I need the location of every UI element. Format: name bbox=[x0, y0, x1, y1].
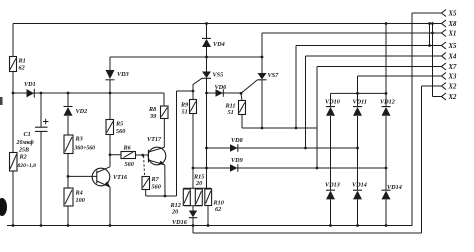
wire dashed to R7 bbox=[144, 156, 145, 177]
diode VD8 bbox=[230, 137, 243, 152]
svg-text:VD14: VD14 bbox=[352, 182, 367, 189]
svg-text:Х1: Х1 bbox=[448, 31, 457, 38]
node VD9 right end phase3 bbox=[385, 167, 388, 170]
transistor VT16 bbox=[68, 167, 128, 226]
node VD6 tap bbox=[205, 92, 208, 95]
svg-text:R7: R7 bbox=[151, 176, 160, 183]
wire x317 vertical bbox=[316, 67, 318, 169]
svg-text:820÷1,8: 820÷1,8 bbox=[18, 163, 37, 169]
svg-text:39: 39 bbox=[149, 113, 156, 120]
wire cathode bus y128 bbox=[242, 127, 317, 129]
node VD15 bottom rail bbox=[385, 224, 388, 227]
divider top bar bbox=[183, 187, 211, 189]
node R1/VD1/R2 junction bbox=[12, 92, 15, 95]
diode VD14 bbox=[352, 182, 367, 200]
svg-text:R6: R6 bbox=[123, 145, 132, 152]
svg-text:VD16: VD16 bbox=[172, 219, 188, 226]
terminal X2 t8 bbox=[442, 83, 458, 91]
transistor VT17 bbox=[147, 136, 166, 165]
diode VD1 bbox=[24, 81, 36, 98]
terminal X4 t5 bbox=[442, 53, 458, 61]
resistor R10 62 bbox=[205, 189, 224, 226]
node VD6/R11/gate junction bbox=[240, 92, 243, 95]
svg-text:Х2: Х2 bbox=[448, 94, 458, 101]
resistor R3 360-560 bbox=[64, 135, 95, 154]
diode VD12 bbox=[380, 99, 395, 116]
node x317 on VD9 line bbox=[316, 167, 319, 170]
terminal X2 t9 bbox=[442, 93, 458, 101]
wire X2 line y86 bbox=[422, 85, 442, 87]
svg-text:360÷560: 360÷560 bbox=[74, 146, 96, 152]
svg-text:25В: 25В bbox=[18, 148, 29, 154]
svg-text:VD8: VD8 bbox=[231, 137, 243, 144]
wire VT17 collector to R8 bbox=[163, 119, 165, 148]
svg-text:VD4: VD4 bbox=[213, 41, 225, 48]
svg-text:Х2: Х2 bbox=[448, 84, 458, 91]
diode VD6 bbox=[207, 84, 242, 97]
svg-text:R2: R2 bbox=[19, 154, 27, 161]
diode VD10 bbox=[325, 99, 340, 116]
diode VD11 bbox=[353, 99, 367, 116]
node VD4 rail2 bbox=[205, 56, 208, 59]
wire main rail y93 bbox=[13, 92, 164, 94]
wire R2 branch bbox=[12, 93, 14, 226]
node R6 tap on collector line bbox=[109, 153, 112, 156]
svg-text:VD6: VD6 bbox=[215, 84, 228, 91]
diode VD15 bbox=[382, 184, 402, 199]
wire x432 vertical bbox=[432, 24, 434, 97]
resistor R2 820/1,8k bbox=[10, 153, 37, 172]
wire VS5 column down to divider bbox=[206, 93, 208, 188]
diode VD13 bbox=[325, 182, 340, 200]
svg-text:R3: R3 bbox=[75, 136, 83, 143]
node phase3 top rail bbox=[385, 22, 388, 25]
diode VD3 bbox=[106, 70, 129, 80]
svg-text:560: 560 bbox=[125, 161, 134, 168]
wire phase2 column bbox=[357, 76, 359, 226]
svg-text:20: 20 bbox=[171, 209, 178, 216]
thyristor VS5 bbox=[193, 57, 223, 93]
svg-text:VD13: VD13 bbox=[325, 182, 340, 189]
resistor R7 560 bbox=[142, 176, 161, 196]
resistor R9 51 bbox=[180, 91, 197, 188]
svg-text:VD11: VD11 bbox=[353, 99, 367, 106]
wire top rail A bbox=[13, 23, 442, 25]
terminal X5 t4 bbox=[442, 42, 458, 50]
svg-text:Х8: Х8 bbox=[448, 21, 458, 28]
node VD16 on bottom rail bbox=[192, 224, 195, 227]
node VS7 rail2 bbox=[261, 56, 264, 59]
wire left vertical from rail to R1 and VD1 node bbox=[12, 24, 14, 94]
diode VD16 bbox=[172, 211, 197, 234]
terminal X8 t2 bbox=[442, 20, 458, 28]
wire rail2 y57 bbox=[110, 56, 262, 58]
wire bottom rail bbox=[7, 225, 412, 228]
wire VT17 emitter down bbox=[164, 165, 166, 196]
svg-text:VD1: VD1 bbox=[24, 81, 36, 88]
svg-text:R5: R5 bbox=[115, 121, 123, 128]
svg-text:VD12: VD12 bbox=[380, 99, 395, 106]
node VD4 top rail bbox=[205, 22, 208, 25]
terminal X5 t1 bbox=[442, 10, 458, 18]
node VD8 left bbox=[205, 147, 208, 150]
node C1 bottom bbox=[40, 224, 43, 227]
thyristor VS7 bbox=[241, 33, 279, 128]
wire x305 vertical bbox=[305, 56, 307, 148]
wire phase3 column bbox=[385, 24, 387, 226]
wire X4 line y56 bbox=[306, 55, 442, 57]
svg-text:VT16: VT16 bbox=[113, 174, 128, 181]
node R3/R4 base tap bbox=[67, 175, 70, 178]
wire phase1 column bbox=[330, 93, 332, 225]
svg-text:560: 560 bbox=[152, 184, 161, 191]
node VT16 emitter bottom bbox=[109, 224, 112, 227]
node VS7 cathode on bus bbox=[261, 127, 264, 130]
node VD3/R5 junction bbox=[109, 92, 112, 95]
node emitter/R7 line bbox=[164, 195, 167, 198]
scan artifact left edge blob bbox=[0, 97, 7, 216]
node x305 on VD8 line bbox=[304, 147, 307, 150]
node R4 bottom bbox=[67, 224, 70, 227]
wire x296 vertical bbox=[295, 46, 297, 129]
node R10 on bottom rail bbox=[207, 224, 210, 227]
wire R5 to VT16 collector bbox=[109, 135, 111, 167]
wire X2 line y96.5 bbox=[433, 96, 442, 98]
svg-text:62: 62 bbox=[215, 206, 221, 213]
divider bottom bar bbox=[184, 206, 202, 211]
svg-text:Х5: Х5 bbox=[448, 11, 458, 18]
node VD9 left R9 bbox=[192, 167, 195, 170]
wire rail y93 corner down to R8 bbox=[163, 93, 165, 106]
wire X7 line y66.5 bbox=[317, 66, 442, 68]
wire line B to X1 bbox=[262, 32, 442, 34]
resistor R12 20 bbox=[170, 189, 203, 216]
resistor R11 51 bbox=[225, 93, 246, 128]
svg-text:VT17: VT17 bbox=[147, 136, 162, 143]
terminal X1 t3 bbox=[442, 30, 457, 38]
wire lower return line y233 bbox=[193, 232, 422, 234]
node VD13 bottom rail bbox=[329, 224, 332, 227]
node VD14 bottom rail bbox=[356, 224, 359, 227]
node C1 tap bbox=[40, 92, 43, 95]
wire R7/emitter line to gate bus bbox=[146, 91, 193, 196]
node phase2 top bar bbox=[356, 92, 359, 95]
svg-text:Х7: Х7 bbox=[448, 64, 458, 71]
node R7 dashed tap bbox=[141, 154, 144, 157]
svg-text:VS5: VS5 bbox=[213, 72, 224, 79]
svg-text:100: 100 bbox=[76, 197, 85, 204]
svg-text:51: 51 bbox=[182, 109, 188, 116]
svg-text:Х5: Х5 bbox=[448, 43, 458, 50]
svg-text:R9: R9 bbox=[180, 102, 188, 109]
node R2 bottom bbox=[12, 224, 15, 227]
node x432 top bbox=[431, 22, 434, 25]
svg-text:R4: R4 bbox=[75, 190, 83, 197]
svg-text:R1: R1 bbox=[18, 58, 26, 65]
svg-text:Х4: Х4 bbox=[448, 54, 458, 61]
svg-text:R8: R8 bbox=[148, 106, 156, 113]
wire X5 terminal1 line y13 bbox=[412, 12, 442, 14]
svg-text:VD14: VD14 bbox=[387, 184, 402, 191]
resistor R1 62 bbox=[10, 57, 26, 72]
svg-text:VD10: VD10 bbox=[325, 99, 340, 106]
svg-text:20: 20 bbox=[195, 180, 202, 187]
resistor R8 39 bbox=[148, 106, 168, 120]
svg-text:C1: C1 bbox=[24, 131, 31, 138]
diode VD2 bbox=[64, 107, 88, 116]
terminal X7 t6 bbox=[442, 63, 458, 71]
node VD9 VS5 column bbox=[205, 167, 208, 170]
wire X3 line y76 bbox=[358, 75, 442, 77]
svg-text:51: 51 bbox=[228, 109, 234, 116]
wire VD3 column bbox=[109, 57, 111, 120]
resistor R5 560 bbox=[106, 120, 125, 136]
wire x429 vertical bbox=[429, 24, 431, 46]
rectifier top bar bbox=[331, 92, 387, 94]
node x432 X1 bbox=[431, 32, 434, 35]
wire x421 vertical bbox=[421, 86, 423, 233]
svg-text:VD9: VD9 bbox=[231, 157, 243, 164]
node gate bus to R9 top bbox=[192, 90, 195, 93]
svg-text:VD3: VD3 bbox=[117, 71, 129, 78]
svg-text:VD2: VD2 bbox=[76, 108, 88, 115]
terminal X3 t7 bbox=[442, 73, 458, 81]
resistor R6 560 bbox=[110, 145, 148, 169]
diode VD9 bbox=[230, 157, 243, 172]
wire VD8 line y148 bbox=[207, 147, 358, 149]
node x429 top bbox=[428, 22, 431, 25]
svg-text:62: 62 bbox=[19, 65, 25, 72]
node x429 bottom bbox=[428, 44, 431, 47]
svg-text:Х3: Х3 bbox=[448, 74, 458, 81]
node VD2 tap bbox=[67, 92, 70, 95]
node phase3 top bar bbox=[385, 92, 388, 95]
wire VD9 line y168 bbox=[193, 167, 386, 169]
wire VD2/R3/R4 branch bbox=[67, 93, 69, 226]
node x296 on bus bbox=[295, 127, 298, 130]
wire X5-4 line y45.5 bbox=[296, 45, 442, 47]
resistor R4 100 bbox=[64, 188, 85, 206]
svg-text:560: 560 bbox=[116, 128, 125, 135]
node VD8 right end phase2 bbox=[356, 147, 359, 150]
resistor R15 20 bbox=[183, 174, 204, 206]
svg-text:20мкф: 20мкф bbox=[16, 139, 35, 146]
svg-text:VS7: VS7 bbox=[268, 72, 280, 79]
wire minus vertical x412 bbox=[411, 13, 413, 226]
capacitor C1 20mkf 25V bbox=[16, 93, 49, 226]
diode VD4 bbox=[202, 24, 225, 58]
